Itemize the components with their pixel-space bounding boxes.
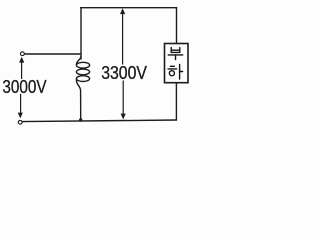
load box (부하)	[165, 44, 189, 83]
node junction coil-bottom / rail	[79, 118, 82, 121]
dimension arrow 3000V upper segment	[18, 8, 126, 119]
wire top rail	[81, 7, 177, 9]
label 부 (load char 1)	[168, 48, 183, 60]
wire left vertical from top rail to coil top	[80, 8, 82, 59]
dimension arrow 3300V upper segment	[122, 13, 124, 65]
svg-text:3000V: 3000V	[2, 77, 46, 97]
dimension arrow 3300V lower segment	[122, 81, 124, 115]
wire bottom rail	[23, 120, 177, 122]
svg-text:3300V: 3300V	[101, 63, 147, 83]
wire top-right drop to load box	[176, 8, 178, 44]
inductor L1 (autotransformer coil)	[76, 56, 81, 65]
label 하 (load char 2)	[168, 64, 183, 79]
terminal bottom-left	[18, 120, 22, 124]
wire load box bottom to rail	[175, 83, 177, 120]
dimension arrow 3000V lower segment	[20, 94, 22, 114]
terminal top-left	[21, 52, 25, 56]
wire input top from terminal to tap node	[25, 53, 81, 55]
